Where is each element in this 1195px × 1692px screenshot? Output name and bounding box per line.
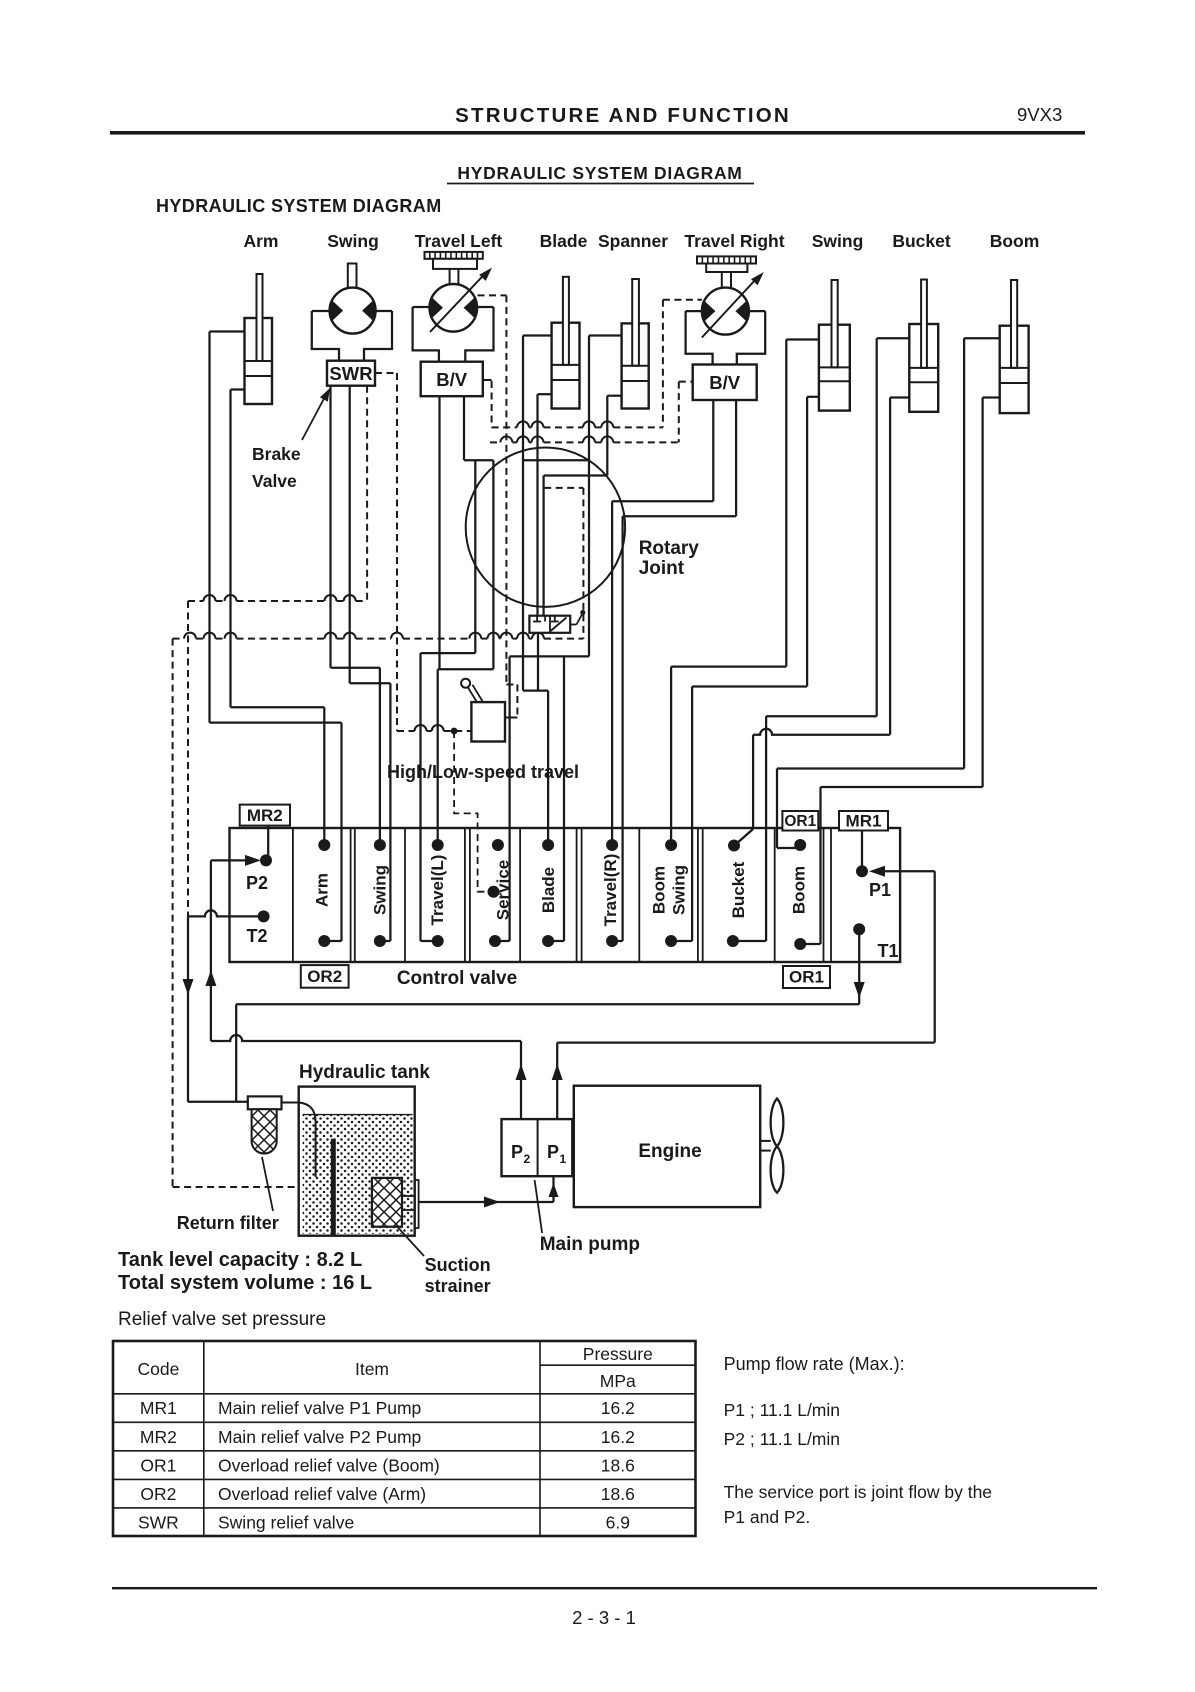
- cylinder Arm: [245, 274, 273, 404]
- table relief pressures: [113, 1341, 696, 1536]
- svg-text:2: 2: [524, 1152, 531, 1166]
- label Rotary Joint: [639, 538, 700, 579]
- cylinder Spanner: [622, 279, 649, 409]
- page title STRUCTURE AND FUNCTION: [455, 104, 791, 127]
- svg-text:P2 ; 11.1 L/min: P2 ; 11.1 L/min: [724, 1429, 840, 1449]
- svg-text:Travel Left: Travel Left: [415, 231, 503, 251]
- svg-text:Swing: Swing: [371, 865, 390, 915]
- valve section Blade: [539, 867, 558, 913]
- wire bucket cylinder bottom port to valve Bucket upper: [736, 398, 910, 845]
- svg-text:B/V: B/V: [709, 372, 741, 393]
- dashed travel pilot upper: [483, 300, 702, 428]
- svg-text:2 - 3 - 1: 2 - 3 - 1: [572, 1607, 636, 1628]
- hydraulic tank: [299, 1087, 415, 1236]
- svg-text:Overload relief valve (Boom): Overload relief valve (Boom): [218, 1456, 440, 1476]
- valve section Service: [494, 860, 513, 921]
- svg-text:Relief valve set pressure: Relief valve set pressure: [118, 1309, 326, 1330]
- label Boom: [990, 231, 1040, 251]
- motor TravelRight bracket: [686, 311, 766, 364]
- svg-text:MR1: MR1: [846, 812, 882, 831]
- svg-text:Service: Service: [494, 860, 513, 921]
- return filter: [248, 1096, 282, 1153]
- wire T2 return to filter: [183, 910, 264, 1101]
- svg-text:Item: Item: [355, 1359, 389, 1379]
- control valve body: [230, 828, 901, 962]
- valve section Boom: [790, 866, 809, 914]
- wire travel-right B/V right port to valve Travel(R) lower: [612, 400, 736, 941]
- svg-text:1: 1: [560, 1152, 567, 1166]
- svg-text:Swing: Swing: [812, 231, 864, 251]
- svg-text:P1: P1: [869, 880, 891, 900]
- wire swing cylinder top port to valve Boom-Swing upper: [671, 340, 819, 846]
- svg-text:Travel(L): Travel(L): [428, 855, 447, 926]
- port P2: [246, 826, 272, 893]
- dashed left return vertical: [173, 639, 296, 1187]
- port T1: [853, 923, 898, 961]
- svg-text:P1 ; 11.1 L/min: P1 ; 11.1 L/min: [724, 1400, 840, 1420]
- wire arm cylinder bottom port to valve Arm upper: [231, 390, 325, 846]
- motor TravelRight: [701, 288, 749, 335]
- svg-text:B/V: B/V: [436, 369, 468, 390]
- svg-text:Code: Code: [137, 1359, 179, 1379]
- svg-text:OR1: OR1: [784, 813, 816, 830]
- svg-text:Travel Right: Travel Right: [684, 231, 784, 251]
- dashed speed-valve pilot: [544, 488, 583, 639]
- motor TravelLeft stem: [450, 269, 459, 285]
- svg-text:Hydraulic tank: Hydraulic tank: [299, 1062, 430, 1083]
- valve section Arm: [313, 873, 332, 907]
- svg-text:Main relief valve P2 Pump: Main relief valve P2 Pump: [218, 1427, 421, 1447]
- label Swing (motor): [327, 231, 379, 251]
- label Hydraulic tank: [299, 1062, 430, 1083]
- wire boom cylinder bottom port to valve Boom lower: [800, 398, 1000, 945]
- wire SWR left port to valve Swing upper: [331, 386, 380, 845]
- label Spanner: [598, 231, 668, 251]
- svg-text:16.2: 16.2: [601, 1398, 635, 1418]
- wire SWR right port to valve Swing lower: [350, 386, 391, 941]
- motor Swing: [329, 288, 376, 334]
- wire travel-right B/V left port to valve Travel(R) upper: [612, 400, 713, 845]
- svg-text:MPa: MPa: [600, 1371, 636, 1391]
- wire suction line: [419, 1176, 559, 1207]
- cylinder Bucket: [909, 280, 938, 412]
- table header: [137, 1344, 652, 1391]
- svg-text:Travel(R): Travel(R): [601, 854, 620, 927]
- pointer suction strainer: [398, 1227, 425, 1256]
- node valve upper ports: [318, 839, 806, 852]
- valve high/low-speed travel: [461, 679, 505, 742]
- wire blade cylinder top port to valve Blade upper: [523, 336, 552, 846]
- svg-text:MR2: MR2: [247, 806, 283, 825]
- header rule: [110, 131, 1085, 135]
- motor Swing bracket: [312, 311, 392, 361]
- label Arm: [243, 231, 278, 251]
- motor TravelRight stem: [722, 272, 731, 288]
- svg-text:Valve: Valve: [252, 471, 297, 491]
- label Swing (cylinder): [812, 231, 864, 251]
- motor TravelLeft: [429, 284, 477, 332]
- wire speed valve drain stub: [537, 631, 539, 690]
- svg-text:Swing relief valve: Swing relief valve: [218, 1513, 354, 1533]
- wire travel-left B/V right port jog: [438, 396, 494, 669]
- relief label OR1 top: [782, 811, 818, 831]
- svg-text:Arm: Arm: [313, 873, 332, 907]
- arrow variable TravelLeft: [430, 265, 495, 332]
- doc code 9VX3: [1017, 104, 1062, 125]
- label service port note: [724, 1482, 992, 1527]
- relief label OR2: [301, 965, 349, 988]
- svg-text:Bucket: Bucket: [729, 861, 748, 918]
- label Suction strainer: [425, 1255, 491, 1296]
- wire P2 supply from pump: [205, 855, 526, 1119]
- svg-text:OR2: OR2: [140, 1484, 176, 1504]
- svg-text:16.2: 16.2: [601, 1427, 635, 1447]
- label Blade: [540, 231, 588, 251]
- dashed pilot travel-left to high/low tab: [478, 295, 518, 717]
- table rows: [138, 1398, 635, 1533]
- svg-text:Blade: Blade: [539, 867, 558, 913]
- label Control valve: [397, 968, 517, 989]
- motor TravelLeft bracket: [413, 307, 494, 362]
- svg-text:Rotary: Rotary: [639, 538, 700, 559]
- valve section Travel(L): [428, 855, 447, 926]
- svg-text:Overload relief valve (Arm): Overload relief valve (Arm): [218, 1484, 426, 1504]
- dashed pilot line 1 (swing relief drain): [188, 595, 367, 601]
- wire boom cylinder top port to valve Boom upper: [777, 338, 1000, 848]
- svg-text:T1: T1: [877, 941, 898, 961]
- section title HYDRAULIC SYSTEM DIAGRAM: [156, 196, 442, 216]
- svg-text:P: P: [547, 1142, 559, 1162]
- svg-text:Swing: Swing: [670, 865, 689, 915]
- svg-text:STRUCTURE AND FUNCTION: STRUCTURE AND FUNCTION: [455, 104, 791, 127]
- svg-text:T2: T2: [246, 926, 267, 946]
- tank inlet pipe: [282, 1103, 316, 1178]
- node valve lower ports: [318, 935, 806, 950]
- label Return filter: [177, 1213, 279, 1233]
- label Main pump: [540, 1234, 640, 1255]
- suction strainer: [372, 1178, 419, 1228]
- svg-text:MR1: MR1: [140, 1398, 177, 1418]
- label system volume: [118, 1272, 372, 1294]
- dashed drain vertical to T2: [187, 601, 189, 916]
- svg-text:Boom: Boom: [650, 866, 669, 914]
- wire spanner cylinder bottom port to speed valve: [544, 396, 622, 617]
- cylinder Boom: [1000, 280, 1029, 413]
- page number 2-3-1: [572, 1607, 636, 1628]
- svg-text:The service port is joint flow: The service port is joint flow by the: [724, 1482, 992, 1502]
- label P1 flow: [724, 1400, 840, 1420]
- svg-text:OR1: OR1: [140, 1456, 176, 1476]
- cylinder Swing: [819, 280, 850, 411]
- motor TravelLeft sprocket: [425, 252, 483, 269]
- valve section Swing: [371, 865, 390, 915]
- svg-text:18.6: 18.6: [601, 1456, 635, 1476]
- svg-text:Boom: Boom: [790, 866, 809, 914]
- arrow variable TravelRight: [702, 269, 767, 338]
- valve section Travel(R): [601, 854, 620, 927]
- valve B/V right: [693, 365, 757, 401]
- svg-text:P2: P2: [246, 873, 268, 893]
- wire travel-left B/V left port down: [438, 396, 440, 669]
- engine fan: [760, 1099, 783, 1193]
- pump main P2 P1: [502, 1119, 573, 1176]
- relief label MR2: [240, 805, 290, 826]
- port P1: [856, 831, 891, 901]
- label pump flow rate: [724, 1354, 905, 1374]
- svg-text:strainer: strainer: [425, 1276, 491, 1296]
- wire crossover inside rotary joint: [523, 459, 589, 461]
- valve travel speed solenoid: [529, 610, 585, 633]
- svg-text:Spanner: Spanner: [598, 231, 668, 251]
- valve B/V left: [421, 362, 483, 397]
- dashed travel pilot lower: [490, 382, 693, 443]
- dashed service pilot from high/low junction: [454, 731, 499, 898]
- svg-text:Boom: Boom: [990, 231, 1040, 251]
- svg-text:Joint: Joint: [639, 558, 685, 579]
- svg-text:P: P: [511, 1142, 523, 1162]
- wire bucket cylinder top port to valve Bucket lower: [733, 338, 909, 941]
- label Travel Left: [415, 231, 503, 251]
- svg-text:OR2: OR2: [307, 967, 342, 986]
- svg-text:Pump flow rate (Max.):: Pump flow rate (Max.):: [724, 1354, 905, 1374]
- wire travel pilot tap to valve Travel(L) lower: [421, 460, 476, 941]
- svg-text:SWR: SWR: [138, 1513, 179, 1533]
- svg-text:Total system volume : 16 L: Total system volume : 16 L: [118, 1272, 372, 1294]
- centered title HYDRAULIC SYSTEM DIAGRAM: [447, 163, 754, 184]
- rotary joint circle: [466, 448, 625, 607]
- svg-text:Tank level capacity : 8.2 L: Tank level capacity : 8.2 L: [118, 1249, 362, 1271]
- svg-text:Suction: Suction: [425, 1255, 491, 1275]
- wire P1 supply from pump: [552, 866, 935, 1119]
- svg-text:Bucket: Bucket: [892, 231, 951, 251]
- svg-text:SWR: SWR: [329, 363, 372, 384]
- valve section Bucket: [729, 861, 748, 918]
- relief label OR1 bottom: [783, 966, 830, 988]
- svg-text:9VX3: 9VX3: [1017, 104, 1062, 125]
- svg-text:P1 and P2.: P1 and P2.: [724, 1507, 811, 1527]
- pointer brake valve: [302, 386, 334, 440]
- label Travel Right: [684, 231, 784, 251]
- wire spanner cylinder top port down to Blade/Service risers: [495, 336, 622, 942]
- label High/Low-speed travel: [387, 762, 579, 782]
- label tank capacity: [118, 1249, 362, 1271]
- engine: [574, 1086, 760, 1207]
- label Bucket: [892, 231, 951, 251]
- relief label MR1: [839, 811, 888, 831]
- svg-text:Main pump: Main pump: [540, 1234, 640, 1255]
- label Brake Valve: [252, 444, 301, 491]
- svg-text:6.9: 6.9: [606, 1513, 630, 1533]
- dashed pilot from SWR tab to high/low valve: [375, 373, 472, 734]
- svg-text:HYDRAULIC SYSTEM DIAGRAM: HYDRAULIC SYSTEM DIAGRAM: [457, 163, 742, 183]
- svg-text:HYDRAULIC SYSTEM DIAGRAM: HYDRAULIC SYSTEM DIAGRAM: [156, 196, 442, 216]
- dashed drop from SWR bottom: [366, 386, 368, 601]
- svg-text:High/Low-speed travel: High/Low-speed travel: [387, 762, 579, 782]
- tank level gauge: [331, 1139, 336, 1236]
- wire swing cylinder bottom port to valve Boom-Swing lower: [671, 397, 819, 941]
- label P2 flow: [724, 1429, 840, 1449]
- wire to valve Travel(L) upper port: [437, 669, 439, 845]
- cylinder Blade: [552, 277, 580, 409]
- svg-text:Blade: Blade: [540, 231, 588, 251]
- valve section Boom Swing: [650, 865, 689, 915]
- wire blade cylinder bottom port to speed valve: [538, 394, 552, 617]
- footer rule: [112, 1587, 1097, 1589]
- pointer main pump: [535, 1180, 543, 1233]
- svg-text:Brake: Brake: [252, 444, 301, 464]
- svg-text:Engine: Engine: [638, 1141, 701, 1162]
- svg-text:Control valve: Control valve: [397, 968, 517, 989]
- motor Swing shaft: [348, 264, 357, 288]
- dashed pilot line 2 (rotary joint pilot): [173, 633, 584, 639]
- label relief valve set pressure: [118, 1309, 326, 1330]
- svg-text:18.6: 18.6: [601, 1484, 635, 1504]
- wire T1 return to tank: [236, 929, 865, 1101]
- motor TravelRight sprocket: [697, 256, 756, 272]
- pointer return filter: [262, 1157, 273, 1211]
- svg-text:Return filter: Return filter: [177, 1213, 279, 1233]
- port T2: [246, 910, 269, 946]
- svg-text:OR1: OR1: [789, 968, 824, 987]
- svg-text:Swing: Swing: [327, 231, 379, 251]
- svg-text:MR2: MR2: [140, 1427, 177, 1447]
- svg-text:Pressure: Pressure: [583, 1344, 653, 1364]
- valve SWR: [327, 361, 375, 386]
- wire arm cylinder top port to valve Arm lower: [210, 332, 342, 942]
- svg-text:Arm: Arm: [243, 231, 278, 251]
- svg-text:Main relief valve P1 Pump: Main relief valve P1 Pump: [218, 1398, 421, 1418]
